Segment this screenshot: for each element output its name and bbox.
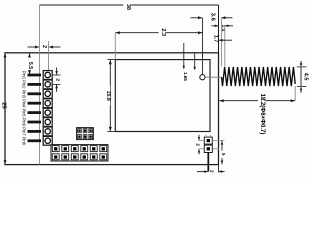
svg-text:Pin5: Pin5 — [21, 109, 26, 118]
dim 15.8 label — [104, 86, 110, 106]
dim 1.7 arrow line — [219, 39, 232, 41]
top width dim left extension line — [39, 5, 41, 165]
pin pad 1 (square + hole) — [43, 71, 52, 80]
dim 15.8 line — [109, 60, 111, 132]
pin pitch ext tick 2 — [53, 83, 61, 85]
shield / IC body rectangle — [115, 60, 210, 132]
dim 2.3 line — [115, 32, 202, 34]
2x3 SMD pad array — [77, 128, 94, 140]
dim 15.8 ext tick top — [107, 59, 115, 61]
pin pad 6 (square + hole) — [43, 118, 52, 127]
dim 18.2 line — [219, 100, 295, 102]
antenna hole extension line — [202, 18, 204, 75]
board outline / PCB edge — [5, 53, 219, 165]
dim 5.5 line — [29, 53, 31, 74]
2x6 pad array — [51, 145, 108, 161]
pin pitch ext tick 1 — [53, 74, 61, 76]
svg-text:1.65: 1.65 — [183, 72, 188, 81]
svg-text:Pin8: Pin8 — [21, 137, 26, 146]
pad feed thick line — [207, 153, 209, 172]
svg-text:Pin6: Pin6 — [21, 118, 26, 127]
top width dimension line — [40, 4, 219, 6]
pin pitch dim arrows — [56, 68, 58, 75]
dim 4.5 ext tick top — [297, 66, 307, 68]
dim 5.5 label — [27, 58, 33, 71]
pin pad 3 (square + hole) — [43, 89, 52, 98]
pin 7 lead bar — [28, 130, 42, 133]
svg-text:Pin1: Pin1 — [21, 71, 26, 80]
svg-text:15.8: 15.8 — [105, 91, 111, 101]
dim 2 (pad to edge) left segment — [197, 171, 208, 173]
pin 8 lead bar — [28, 139, 42, 142]
top width dim right drop / board right edge upper — [218, 5, 220, 53]
svg-text:Pin2: Pin2 — [21, 80, 26, 89]
svg-text:Pin7: Pin7 — [21, 127, 26, 136]
dim 25 arrows on left edge — [4, 53, 7, 57]
pin 6 lead bar — [28, 121, 42, 124]
pad side extensions — [205, 135, 207, 137]
pin column center extension line — [48, 41, 50, 70]
svg-text:2: 2 — [41, 45, 47, 48]
pad B center extension — [199, 148, 205, 150]
antenna mounting hole — [200, 75, 205, 80]
svg-text:Pin4: Pin4 — [21, 99, 26, 108]
spring antenna coil — [222, 67, 296, 86]
dim 2 (pin col offset) left segment — [28, 46, 39, 48]
pin 4 lead bar — [28, 102, 42, 105]
dim 1.65 leader line a — [194, 53, 196, 70]
svg-text:1.7: 1.7 — [213, 35, 219, 43]
dim 1.4 right segment — [225, 25, 233, 27]
dim 5 label — [220, 151, 225, 158]
dim 15.8 ext tick bottom — [107, 131, 115, 133]
dim 2.3 left extension — [114, 33, 116, 60]
dim 18.2 label — [258, 89, 265, 139]
dim 4.5 ext tick bottom — [297, 86, 307, 88]
svg-text:3.6: 3.6 — [210, 13, 216, 22]
pin pad 4 (square + hole) — [43, 99, 52, 108]
svg-text:5.5: 5.5 — [27, 62, 33, 69]
dim 2 (pad pitch br) arrows — [198, 135, 200, 140]
dim 3.6 right segment — [222, 17, 233, 19]
svg-text:Pin3: Pin3 — [21, 90, 26, 99]
pin pad 7 (square + hole) — [43, 127, 52, 136]
top width dim label 38 — [123, 0, 131, 11]
svg-text:2.3: 2.3 — [160, 28, 166, 36]
svg-text:4.5: 4.5 — [302, 73, 308, 81]
dim 2 (pin col offset) right segment — [49, 46, 60, 48]
antenna pad B — [204, 145, 212, 152]
svg-text:38: 38 — [125, 4, 131, 10]
spring start extension line — [220, 18, 222, 67]
dim 2.3 label — [159, 25, 166, 39]
pad A center extension — [199, 140, 205, 142]
antenna pad A — [204, 137, 212, 144]
pin pad 5 (square + hole) — [43, 108, 52, 117]
svg-text:2: 2 — [209, 170, 214, 173]
svg-text:2: 2 — [195, 143, 200, 146]
dim 3.6 left segment — [191, 17, 202, 19]
pin 1 lead bar — [28, 74, 42, 77]
pin pad 8 (square + hole) — [43, 136, 52, 145]
dim 1.4 left segment — [212, 25, 219, 27]
second spring extension line — [224, 26, 226, 67]
board right edge bottom extension — [218, 165, 220, 173]
pin 2 lead bar — [28, 83, 42, 86]
dim 5 line — [221, 141, 223, 165]
dim 1.65 leader line b — [183, 43, 185, 69]
svg-text:5: 5 — [221, 153, 226, 156]
pin 5 lead bar — [28, 111, 42, 114]
svg-text:2: 2 — [55, 78, 61, 81]
svg-text:18.2(Φ6×Φ0.7): 18.2(Φ6×Φ0.7) — [259, 94, 265, 135]
pin 3 lead bar — [28, 92, 42, 95]
dim 18.2 right extension — [294, 86, 296, 101]
antenna feed wire — [205, 76, 222, 78]
svg-text:25: 25 — [0, 102, 6, 109]
dim 2 (pad to edge) right segment — [219, 171, 225, 173]
dim 4.5 line — [300, 67, 302, 87]
pin pad 2 (square + hole) — [43, 80, 52, 89]
